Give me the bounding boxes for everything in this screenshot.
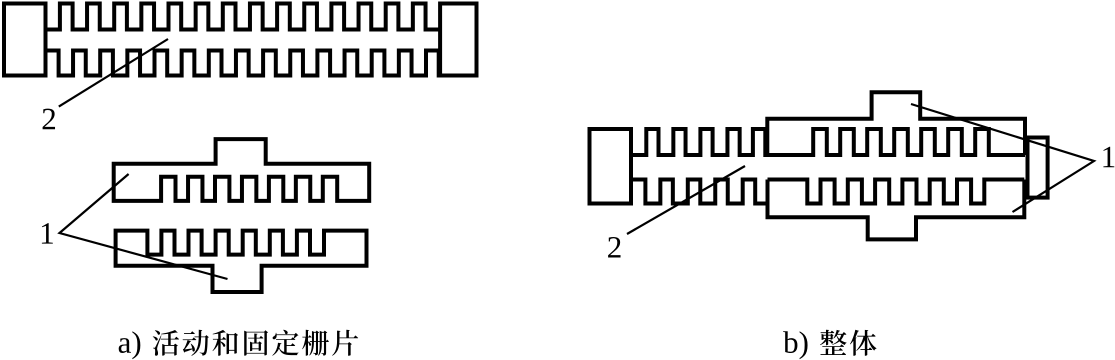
- fig b leader lines for label 1: [911, 104, 1094, 212]
- fig b label 2: [608, 237, 620, 258]
- fig b leader line for label 2: [627, 166, 745, 234]
- fig a movable grating lower piece: [116, 231, 367, 292]
- fig a movable grating upper piece: [114, 139, 370, 201]
- fig a leader lines for label 1: [60, 174, 228, 279]
- fig a fixed grating strip: top comb edge: [46, 4, 441, 30]
- fig b assembled: lower movable bar outline: [768, 180, 1025, 240]
- caption a CJK: huo dong he gu ding shan pian: [153, 330, 179, 356]
- caption b) prefix: [783, 331, 797, 353]
- fig b assembled: upper movable bar outline: [767, 92, 1025, 155]
- caption a) prefix: [119, 338, 131, 353]
- fig b assembled: interdigitated top comb edge: [631, 129, 1025, 155]
- fig a fixed grating strip: bottom comb edge: [46, 51, 441, 76]
- fig b assembled: left anchor block: [590, 129, 632, 204]
- fig a label 2: [43, 109, 55, 130]
- fig a leader line for label 2: [59, 39, 168, 107]
- fig b assembled: bottom comb edge overlap section: [768, 180, 1025, 204]
- fig b label 1: [1103, 147, 1114, 167]
- fig a label 1: [42, 223, 53, 243]
- caption b CJK: zheng ti: [820, 330, 847, 355]
- fig b assembled: bottom comb edge left section: [631, 180, 768, 204]
- fig a fixed grating strip: left anchor block: [4, 4, 46, 76]
- fig a fixed grating strip: right anchor block: [440, 4, 476, 76]
- fig b assembled: right anchor block: [1028, 138, 1048, 198]
